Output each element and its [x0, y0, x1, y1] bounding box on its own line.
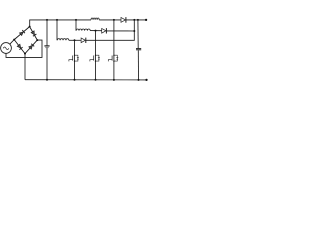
node top rail x114 [113, 19, 115, 21]
node phase B switch [74, 39, 76, 41]
wire Q2 source [95, 61, 97, 80]
inductor L3 [76, 29, 90, 31]
node top rail x57 [56, 19, 58, 21]
bridge arm L-B [14, 40, 25, 54]
diode D2 [81, 38, 85, 43]
wire Q3 source [113, 61, 115, 80]
AC source V1 [1, 43, 12, 54]
node phase C switch [95, 30, 97, 32]
diode D3 [102, 29, 106, 34]
bridge diode D8 [29, 45, 33, 49]
node top rail x76 [75, 19, 77, 21]
transistor Q2 [95, 55, 97, 61]
bridge arm L-T [14, 27, 29, 40]
wire Q1 source [74, 61, 76, 80]
wire Q3 drain [113, 20, 115, 55]
bridge node left [13, 39, 15, 41]
wire top rail mid [99, 19, 121, 21]
wire phase B drop [56, 20, 58, 40]
node phase C join [133, 30, 135, 32]
bridge arm B-R [25, 40, 37, 54]
node bottom Q3 [113, 79, 115, 81]
bridge diode D7 [17, 44, 21, 48]
node top rail x134 [133, 19, 135, 21]
wire top rail left [30, 20, 91, 27]
node bottom Q2 [95, 79, 97, 81]
bridge diode D5 [20, 32, 24, 36]
wire D2 to output [86, 20, 135, 40]
bridge node bottom [24, 53, 26, 55]
bridge node right [36, 39, 38, 41]
wire bridge bottom to rail [24, 54, 26, 80]
diode D1 [121, 18, 125, 23]
wire bottom rail [25, 79, 147, 81]
wire L3 to D3 [90, 30, 101, 32]
wire AC to bridge left [10, 40, 14, 45]
wire L2 to D2 [69, 39, 81, 41]
node bottom C2 [138, 79, 140, 81]
terminal output - [145, 79, 147, 81]
node bottom x47 [46, 79, 48, 81]
bridge node top [29, 26, 31, 28]
wire C2 top [137, 20, 139, 48]
wire C1 top [46, 20, 48, 46]
node top rail x138 [137, 19, 139, 21]
transistor Q1 [74, 55, 76, 61]
node top rail x47 [46, 19, 48, 21]
wire D3 to output [106, 30, 134, 32]
wire Q2 drain [95, 31, 97, 55]
wire phase C drop [75, 20, 77, 31]
capacitor C2 [136, 48, 141, 50]
inductor L1 [91, 18, 99, 20]
wire top rail right [126, 19, 147, 21]
wire C1 bottom [46, 47, 48, 79]
terminal output + [145, 19, 147, 21]
wire C2 bottom [137, 50, 139, 80]
node bottom Q1 [74, 79, 76, 81]
transistor Q3 [113, 55, 115, 61]
wire AC bottom loop [6, 40, 42, 57]
bridge arm T-R [30, 27, 38, 40]
bridge diode D6 [31, 31, 34, 35]
inductor L2 [57, 39, 69, 41]
wire Q1 drain [74, 40, 76, 55]
capacitor C1 [44, 45, 49, 47]
